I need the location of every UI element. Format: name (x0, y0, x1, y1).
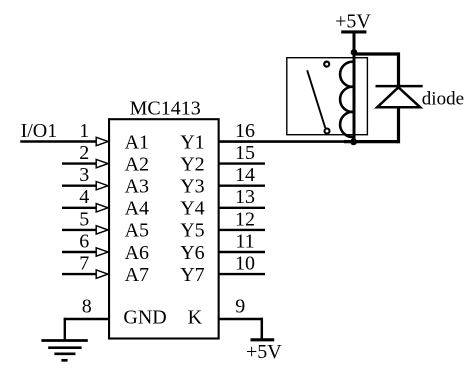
svg-text:Y7: Y7 (180, 264, 204, 286)
svg-text:+5V: +5V (335, 10, 371, 32)
svg-text:6: 6 (79, 230, 89, 252)
svg-text:A1: A1 (125, 131, 149, 153)
svg-text:7: 7 (79, 253, 89, 275)
svg-text:+5V: +5V (246, 341, 282, 363)
svg-text:5: 5 (79, 208, 89, 230)
svg-text:A4: A4 (125, 198, 149, 220)
svg-text:1: 1 (79, 120, 89, 142)
svg-text:9: 9 (235, 295, 245, 317)
svg-text:A5: A5 (125, 220, 149, 242)
svg-text:Y1: Y1 (180, 131, 204, 153)
svg-text:A3: A3 (125, 176, 149, 198)
svg-text:10: 10 (235, 253, 255, 275)
svg-text:16: 16 (235, 120, 255, 142)
svg-text:3: 3 (79, 164, 89, 186)
svg-text:15: 15 (235, 142, 255, 164)
svg-text:I/O1: I/O1 (21, 120, 58, 142)
svg-text:8: 8 (82, 295, 92, 317)
svg-text:MC1413: MC1413 (130, 98, 201, 120)
svg-text:Y6: Y6 (180, 242, 204, 264)
svg-text:Y3: Y3 (180, 176, 204, 198)
svg-text:11: 11 (235, 230, 254, 252)
svg-text:13: 13 (235, 186, 255, 208)
svg-text:14: 14 (235, 164, 255, 186)
svg-text:A2: A2 (125, 154, 149, 176)
svg-text:Y4: Y4 (180, 198, 204, 220)
svg-text:2: 2 (79, 142, 89, 164)
svg-text:A6: A6 (125, 242, 149, 264)
svg-text:A7: A7 (125, 264, 149, 286)
svg-text:K: K (188, 307, 203, 329)
svg-text:GND: GND (123, 307, 166, 329)
svg-text:Y2: Y2 (180, 154, 204, 176)
svg-text:diode: diode (422, 88, 464, 109)
svg-text:Y5: Y5 (180, 220, 204, 242)
svg-text:4: 4 (79, 186, 89, 208)
svg-text:12: 12 (235, 208, 255, 230)
